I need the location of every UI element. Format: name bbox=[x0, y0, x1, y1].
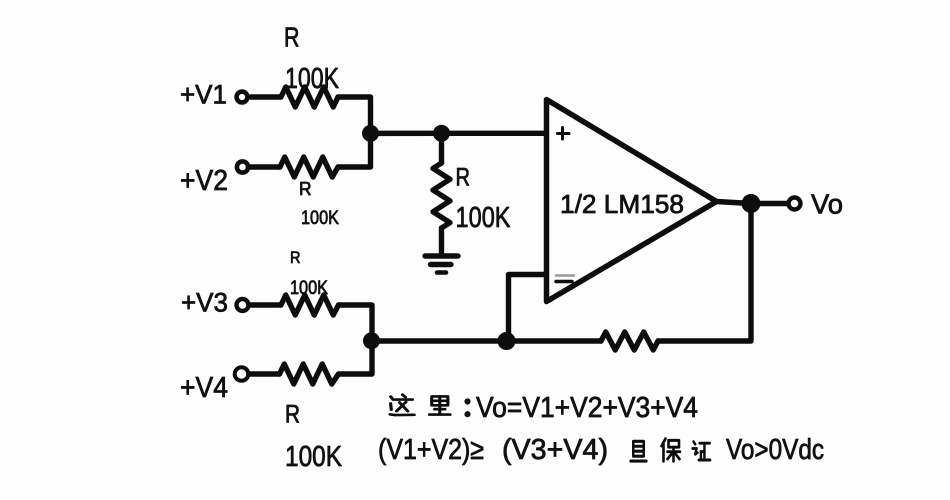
node A (summing node V1+V2) bbox=[362, 125, 379, 142]
wire R6 to output node bbox=[658, 212, 751, 341]
resistor R2 100K (V2 input) bbox=[280, 157, 338, 177]
svg-text:Vo=V1+V2+V3+V4: Vo=V1+V2+V3+V4 bbox=[476, 392, 698, 424]
terminal V3 bbox=[237, 299, 249, 311]
wire V4 terminal to R4 bbox=[249, 371, 280, 376]
resistor R4 100K (V4 input) bbox=[280, 364, 339, 384]
wire V3 terminal to R3 bbox=[250, 302, 281, 307]
caption line 1: char 里 bbox=[429, 396, 450, 414]
wire R4 to node C bbox=[339, 344, 373, 374]
svg-text:+V3: +V3 bbox=[181, 288, 228, 318]
svg-text:+V1: +V1 bbox=[180, 80, 227, 110]
resistor R1 100K (V1 input) bbox=[281, 87, 338, 107]
wire node C to node D bbox=[372, 338, 507, 343]
svg-text:100K: 100K bbox=[456, 202, 512, 234]
wire node D to feedback resistor R6 bbox=[507, 338, 602, 343]
wire R3 to node C bbox=[339, 305, 373, 338]
node B (top of R5) bbox=[433, 125, 450, 142]
resistor R3 100K (V3 input) bbox=[281, 295, 339, 315]
wire V2 terminal to R2 bbox=[250, 164, 280, 169]
wire node B to op-amp plus input bbox=[442, 131, 545, 136]
caption line 2: char 证 bbox=[693, 442, 711, 460]
svg-text:R: R bbox=[299, 179, 312, 199]
node C (summing node V3+V4) bbox=[363, 332, 380, 349]
caption line 1: fullwidth colon bbox=[464, 398, 470, 417]
op-amp U1 1/2 LM158 bbox=[547, 100, 717, 302]
terminal V2 bbox=[237, 161, 248, 172]
svg-text:+V2: +V2 bbox=[180, 165, 228, 197]
caption line 2: char 保 bbox=[662, 439, 681, 462]
wire R1 to node A bbox=[338, 97, 371, 130]
wire node A to node B bbox=[371, 131, 442, 136]
svg-text:Vo>0Vdc: Vo>0Vdc bbox=[726, 434, 824, 466]
wire node E to output terminal bbox=[751, 201, 788, 206]
wire R5 to ground bbox=[439, 228, 444, 254]
svg-text:100K: 100K bbox=[285, 441, 343, 473]
resistor R6 (feedback) bbox=[601, 332, 658, 350]
terminal V1 bbox=[237, 92, 248, 103]
terminal V4 bbox=[235, 367, 249, 381]
node D (inverting input junction) bbox=[498, 332, 516, 350]
wire node B down to R5 bbox=[439, 133, 444, 163]
svg-text:100K: 100K bbox=[285, 63, 340, 95]
op-amp plus input marker bbox=[558, 128, 570, 140]
svg-text:Vo: Vo bbox=[811, 189, 843, 220]
svg-text:100K: 100K bbox=[301, 207, 339, 229]
op-amp minus input marker bbox=[556, 276, 574, 282]
caption line 2: char 且 bbox=[631, 441, 647, 461]
caption line 1: char 这 bbox=[390, 395, 414, 415]
ground bbox=[425, 256, 458, 273]
svg-text:(V1+V2)≥: (V1+V2)≥ bbox=[378, 434, 484, 466]
wire node D to op-amp minus input bbox=[509, 275, 545, 342]
svg-text:R: R bbox=[456, 164, 471, 192]
svg-text:R: R bbox=[290, 248, 301, 267]
svg-text:R: R bbox=[284, 22, 300, 53]
svg-text:(V3+V4): (V3+V4) bbox=[502, 434, 608, 466]
wire op-amp output to node E bbox=[717, 202, 752, 204]
terminal Vo bbox=[789, 198, 801, 210]
svg-text:R: R bbox=[285, 401, 300, 429]
resistor R5 100K (to ground) bbox=[433, 163, 450, 228]
wire R2 to node A bbox=[338, 136, 371, 167]
svg-text:1/2 LM158: 1/2 LM158 bbox=[560, 189, 684, 219]
svg-text:+V4: +V4 bbox=[180, 372, 228, 404]
wire V1 terminal to R1 bbox=[250, 94, 281, 99]
node E (output node) bbox=[742, 194, 761, 213]
